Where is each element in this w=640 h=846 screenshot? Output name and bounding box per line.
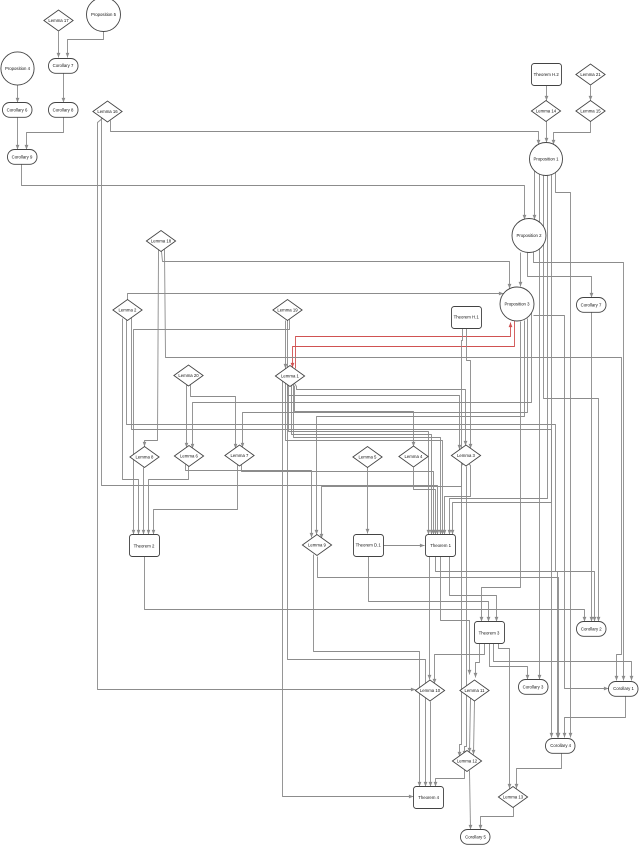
wire Corollary 9 to Proposition 2 — [22, 165, 527, 220]
wire Lemma 9 to Corollary 4 — [318, 557, 561, 738]
node Lemma 7 (L7) — [225, 445, 254, 466]
wire Lemma 11 to Lemma 12 — [472, 701, 476, 755]
node Proposition 1 (P1) — [530, 143, 563, 176]
wire Theorem 3 to Lemma 13 — [499, 644, 512, 789]
node Lemma 1 (L1) — [275, 366, 304, 387]
wire Lemma 13 to Corollary 5 — [479, 808, 514, 830]
svg-text:Corollary 8: Corollary 8 — [53, 108, 74, 113]
svg-text:Proposition 3: Proposition 3 — [504, 302, 530, 307]
node Lemma 12 (L12) — [452, 751, 481, 772]
wire Lemma 1 to Lemma 3 — [295, 384, 468, 446]
svg-text:Theorem 3: Theorem 3 — [479, 630, 500, 635]
wire Theorem 1 to Corollary 4 — [436, 557, 560, 738]
wire Lemma 3 to Lemma 9 — [320, 464, 464, 539]
wire Lemma 10 to Theorem 4 — [429, 702, 433, 787]
node Lemma 18 (L18) — [146, 231, 175, 252]
wire Lemma 2 to Theorem 2 — [123, 319, 141, 535]
node Theorem H.1 (TH1) — [452, 307, 482, 329]
wire Lemma 2 to Corollary 2 — [127, 319, 597, 622]
node Lemma 4 (L4) — [399, 446, 428, 467]
wire Proposition 1 to Theorem 1 b — [451, 175, 552, 535]
svg-text:Lemma 5: Lemma 5 — [359, 455, 378, 460]
svg-text:Lemma 15: Lemma 15 — [580, 109, 601, 114]
wire Proposition 1 to Corollary 2 — [544, 176, 601, 622]
wire Corollary 7 to Corollary 8 — [62, 74, 66, 103]
wire Corollary 4 to Lemma 13 — [515, 754, 562, 789]
node Proposition 4 (P4) — [1, 52, 34, 85]
node Lemma 13 (L13) — [498, 787, 527, 808]
wire Lemma 16 to Lemma 10 — [98, 118, 416, 692]
svg-text:Corollary 9: Corollary 9 — [12, 155, 33, 160]
wire Theorem H.2 to Lemma 14 — [545, 86, 549, 101]
wire Theorem 3 to Corollary 3 — [490, 644, 530, 680]
node Corollary 2 (C2) — [577, 622, 607, 637]
svg-text:Lemma 8: Lemma 8 — [136, 455, 155, 460]
svg-text:Lemma 20: Lemma 20 — [178, 373, 199, 378]
node Lemma 6 (L6) — [174, 446, 203, 467]
svg-text:Lemma 3: Lemma 3 — [457, 453, 476, 458]
wire Lemma 1 to Proposition 3 red — [296, 323, 513, 369]
svg-text:Corollary 7: Corollary 7 — [581, 303, 602, 308]
node Lemma 10 (L10) — [415, 680, 444, 701]
wire Lemma 9 to Theorem 4 — [314, 555, 422, 787]
wire Proposition 1 to Corollary 3 — [538, 174, 542, 680]
wire Proposition 3 to Lemma 1 red — [291, 321, 515, 368]
svg-text:Corollary 7: Corollary 7 — [53, 63, 74, 68]
wire Theorem 1 to Lemma 10 — [428, 557, 432, 680]
wire Theorem H.1 to Lemma 12 — [458, 329, 463, 757]
node Corollary 7 (C7a) — [49, 59, 79, 74]
node Theorem 3 (T3) — [475, 622, 505, 644]
wire Theorem 1 to Theorem 3 — [450, 557, 499, 622]
wire Lemma 8 to Theorem 2 — [142, 468, 146, 535]
svg-text:Proposition 1: Proposition 1 — [533, 157, 559, 162]
wire Lemma 15 to Proposition 1 — [552, 122, 591, 145]
wire Proposition 3 to Lemma 9 — [315, 321, 525, 535]
wire Lemma 6 to Lemma 9 — [186, 465, 314, 538]
wire Lemma 20 to Lemma 6 — [185, 386, 189, 448]
wire Corollary 8 to Corollary 9 — [25, 118, 64, 150]
svg-text:Corollary 1: Corollary 1 — [613, 686, 634, 691]
svg-text:Corollary 2: Corollary 2 — [581, 627, 602, 632]
wire Proposition 2 to Corollary 7b — [528, 253, 594, 298]
svg-text:Theorem D.1: Theorem D.1 — [356, 543, 382, 548]
wire Lemma 1 to Theorem 1 a — [289, 386, 431, 535]
wire Proposition 2 to Corollary 1 — [534, 251, 626, 681]
wire Lemma 18 to Corollary 1 — [165, 250, 622, 681]
wire Theorem D.1 to Theorem 1 — [384, 544, 425, 548]
wire Lemma 7 to Theorem 1 — [242, 465, 436, 535]
wire Proposition 1 to Proposition 2 — [533, 171, 537, 220]
node Lemma 14 (L14) — [531, 101, 560, 122]
node Theorem H.2 (TH2) — [532, 64, 562, 86]
node Theorem 4 (T4) — [414, 787, 444, 809]
svg-text:Theorem 1: Theorem 1 — [430, 543, 451, 548]
wire Lemma 6 to Theorem 2 — [147, 467, 189, 535]
svg-text:Lemma 17: Lemma 17 — [48, 18, 69, 23]
wire Lemma 1 to Theorem 1 d — [286, 384, 445, 535]
svg-text:Theorem H.2: Theorem H.2 — [534, 72, 560, 77]
wire Theorem 3 to Lemma 10 — [433, 644, 485, 684]
wire Lemma 17 to Corollary 7 — [57, 32, 61, 58]
node Proposition 2 (P2) — [512, 219, 546, 253]
wire Lemma 3 to Lemma 12 — [463, 467, 467, 756]
svg-text:Theorem H.1: Theorem H.1 — [454, 315, 480, 320]
wire Lemma 1 to Lemma 4 — [293, 385, 416, 447]
svg-text:Proposition 5: Proposition 5 — [91, 12, 117, 17]
svg-text:Lemma 16: Lemma 16 — [97, 109, 118, 114]
node Theorem 2 (T2) — [130, 535, 160, 557]
wire Lemma 19 to Lemma 1 — [284, 321, 288, 369]
wire Lemma 1 to Theorem 4 b — [288, 385, 428, 787]
wire Theorem 3 to Lemma 11 — [474, 644, 480, 678]
wire Lemma 12 to Corollary 5 — [469, 771, 473, 830]
svg-text:Lemma 9: Lemma 9 — [308, 543, 327, 548]
wire Lemma 12 to Theorem 4 — [434, 770, 465, 787]
wire Theorem H.1 to Lemma 3 — [467, 329, 473, 449]
wire Lemma 19 to Lemma 3 — [288, 321, 462, 450]
wire Lemma 2 to Corollary 4 — [132, 318, 554, 738]
node Lemma 19 (L19) — [273, 300, 302, 321]
wire Lemma 21 to Lemma 15 — [589, 86, 593, 101]
svg-text:Lemma 14: Lemma 14 — [536, 109, 557, 114]
svg-text:Lemma 6: Lemma 6 — [180, 454, 199, 459]
svg-text:Proposition 4: Proposition 4 — [5, 66, 31, 71]
wire Theorem 1 to Lemma 11 — [441, 557, 472, 675]
node Lemma 16 (L16) — [93, 101, 122, 122]
wire Corollary 1 to Corollary 4 — [563, 697, 626, 738]
svg-text:Theorem 4: Theorem 4 — [418, 795, 439, 800]
svg-text:Lemma 7: Lemma 7 — [231, 453, 250, 458]
node Corollary 3 (C3) — [519, 680, 549, 695]
wire Theorem 3 to Corollary 1 — [494, 644, 634, 681]
node Lemma 17 (L17) — [44, 10, 73, 31]
wire Proposition 3 to Theorem 3 — [480, 322, 521, 622]
wire Lemma 18 to Proposition 3 — [162, 252, 512, 289]
wire Lemma 4 to Theorem 1 — [414, 468, 438, 535]
wire Lemma 16 to Theorem 1 — [102, 118, 440, 535]
wire Lemma 19 to Theorem 2 — [132, 320, 290, 535]
node Lemma 9 (L9) — [302, 535, 331, 556]
node Corollary 6 (C6) — [3, 103, 33, 118]
svg-text:Lemma 1: Lemma 1 — [281, 374, 300, 379]
node Corollary 4 (C4) — [546, 739, 576, 754]
svg-text:Lemma 2: Lemma 2 — [119, 308, 138, 313]
node Theorem 1 (T1) — [426, 535, 456, 557]
node Lemma 3 (L3) — [451, 445, 480, 466]
svg-text:Proposition 2: Proposition 2 — [516, 233, 542, 238]
node Lemma 8 (L8) — [130, 447, 159, 468]
svg-text:Corollary 5: Corollary 5 — [465, 835, 486, 840]
node Proposition 3 (P3) — [500, 287, 534, 321]
wire Proposition 3 to Lemma 7 — [241, 319, 528, 448]
wire Lemma 14 to Proposition 1 — [545, 122, 549, 143]
wire Proposition 4 to Corollary 6 — [16, 86, 20, 103]
node Lemma 5 (L5) — [353, 447, 382, 468]
wire Proposition 5 to Corollary 7 — [66, 32, 104, 58]
svg-text:Theorem 2: Theorem 2 — [134, 543, 155, 548]
node Theorem D.1 (TD1) — [354, 535, 384, 557]
wire Proposition 3 to Corollary 1 — [534, 316, 609, 691]
svg-text:Lemma 19: Lemma 19 — [277, 308, 298, 313]
node Lemma 11 (L11) — [460, 680, 489, 701]
node Corollary 8 (C8) — [49, 103, 79, 118]
node Corollary 5 (C5) — [461, 830, 491, 845]
wire Proposition 3 to Lemma 6 — [191, 311, 532, 449]
wire Corollary 7b to Corollary 2 — [590, 313, 594, 622]
wire Lemma 16 to Proposition 1 — [111, 121, 541, 145]
wire Lemma 2 to Proposition 3 — [128, 292, 504, 300]
svg-text:Lemma 18: Lemma 18 — [151, 239, 172, 244]
wire Lemma 11 to Lemma 12 b — [468, 698, 472, 753]
wire Lemma 1 to Theorem 1 c — [294, 385, 443, 535]
wire Proposition 2 to Proposition 3 — [519, 253, 523, 287]
node Corollary 1 (C1) — [609, 682, 639, 697]
wire Lemma 20 to Lemma 7 — [191, 385, 238, 449]
node Lemma 20 (L20) — [174, 365, 203, 386]
wire Proposition 1 to Theorem 1 a — [448, 176, 548, 535]
wire Corollary 6 to Corollary 9 — [16, 118, 20, 150]
wire Lemma 7 to Theorem 2 — [152, 465, 238, 535]
svg-text:Lemma 13: Lemma 13 — [503, 795, 524, 800]
svg-text:Lemma 4: Lemma 4 — [405, 454, 424, 459]
svg-text:Corollary 6: Corollary 6 — [7, 108, 28, 113]
wire Lemma 1 to Theorem 4 — [283, 382, 414, 799]
node Corollary 7 (C7b) — [577, 298, 607, 313]
svg-text:Lemma 10: Lemma 10 — [420, 688, 441, 693]
svg-text:Lemma 12: Lemma 12 — [457, 759, 478, 764]
wire Lemma 1 to Theorem 1 b — [292, 386, 434, 535]
node Lemma 2 (L2) — [113, 300, 142, 321]
node Proposition 5 (P5) — [87, 0, 121, 32]
node Corollary 9 (C9) — [8, 150, 38, 165]
wire Lemma 18 to Lemma 8 — [143, 250, 159, 447]
svg-text:Corollary 3: Corollary 3 — [523, 685, 544, 690]
node Lemma 15 (L15) — [576, 101, 605, 122]
svg-text:Corollary 4: Corollary 4 — [550, 743, 571, 748]
svg-text:Lemma 11: Lemma 11 — [465, 688, 486, 693]
wire Theorem D.1 to Theorem 3 — [369, 557, 491, 622]
wire Lemma 3 to Theorem 1 b — [443, 464, 471, 535]
node Lemma 21 (L21) — [576, 64, 605, 85]
wire Theorem 2 to Corollary 2 — [145, 557, 587, 622]
svg-text:Lemma 21: Lemma 21 — [580, 72, 601, 77]
wire Proposition 1 to Corollary 4 — [556, 173, 573, 738]
wire Lemma 5 to Theorem D.1 — [366, 468, 370, 534]
